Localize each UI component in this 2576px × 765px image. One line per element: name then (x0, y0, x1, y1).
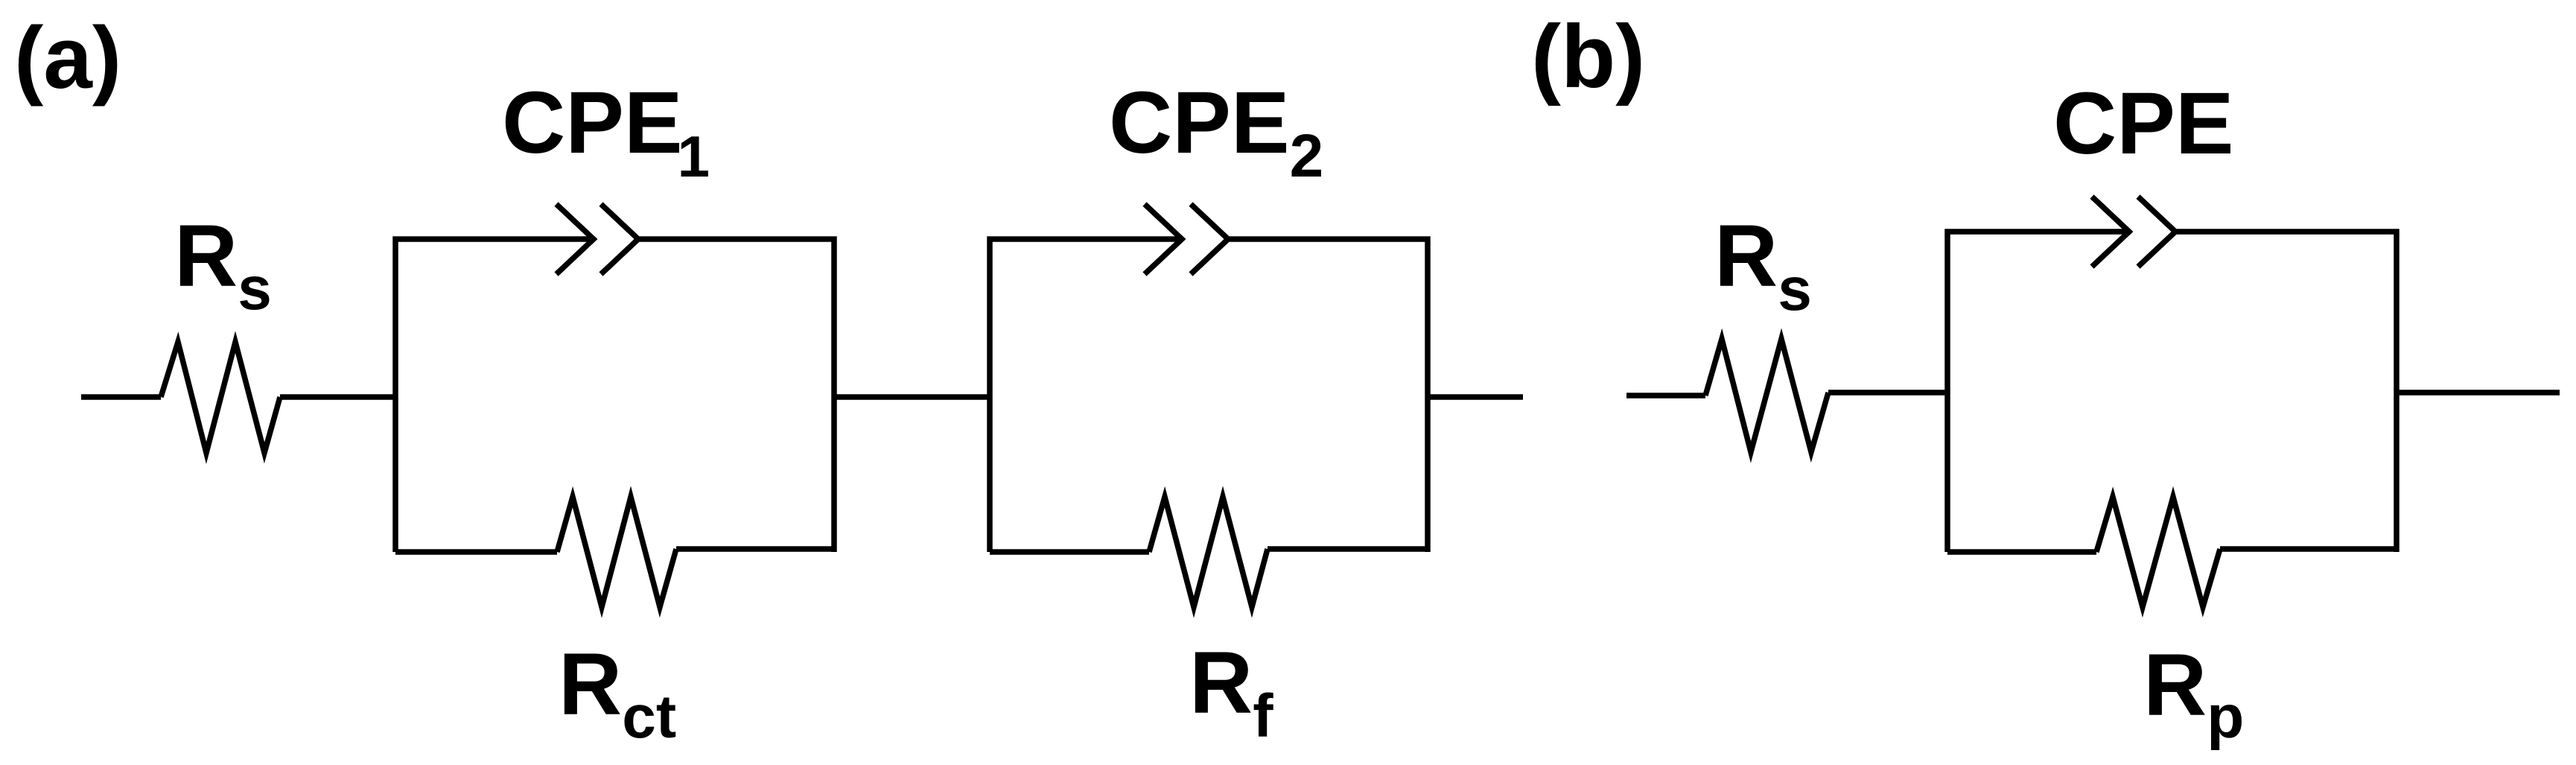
capacitor CPE chevron 1 (panel b) (2092, 197, 2129, 267)
wire: panel (a) output lead (1428, 394, 1523, 400)
svg-text:CPE1: CPE1 (502, 74, 710, 189)
svg-text:(a): (a) (14, 9, 121, 107)
wire: panel (a) input lead (81, 394, 161, 400)
node: box a2 top-right wire + right vertical (1228, 239, 1428, 552)
wire: box b bottom-left (1947, 549, 2096, 555)
capacitor CPE2 chevron 2 (1191, 204, 1228, 274)
wire: series link between box a1 and box a2 (834, 394, 990, 400)
resistor Rs (panel a) zigzag (161, 342, 280, 453)
node: box a1 top-right wire + right vertical (638, 239, 834, 552)
capacitor CPE2 chevron 1 (1145, 204, 1182, 274)
wire: Rs to first parallel box (280, 394, 395, 400)
resistor Rs (panel b) zigzag (1705, 339, 1828, 452)
node: box b top-right wire + right vertical (2175, 232, 2397, 552)
capacitor CPE1 chevron 1 (556, 204, 594, 274)
wire: box a2 bottom-right (1268, 546, 1428, 552)
wire: panel (b) output lead (2397, 390, 2560, 396)
resistor Rp zigzag (2096, 497, 2220, 607)
node: box a2 left vertical + top-left wire (990, 239, 1182, 552)
svg-text:(b): (b) (1531, 7, 1645, 107)
resistor Rf zigzag (1149, 497, 1268, 607)
wire: box a1 bottom-left (395, 549, 557, 555)
svg-text:CPE: CPE (2053, 74, 2234, 173)
wire: box b bottom-right (2220, 546, 2397, 552)
wire: panel (b) input lead (1626, 393, 1705, 399)
wire: box a2 bottom-left (990, 549, 1149, 555)
wire: Rs to parallel box (panel b) (1828, 390, 1947, 396)
node: box b left vertical + top-left wire (1947, 232, 2129, 552)
capacitor CPE chevron 2 (panel b) (2138, 197, 2175, 267)
resistor Rct zigzag (557, 497, 676, 607)
node: box a1 left vertical + top-left wire (395, 239, 594, 552)
capacitor CPE1 chevron 2 (601, 204, 638, 274)
wire: box a1 bottom-right (676, 546, 834, 552)
